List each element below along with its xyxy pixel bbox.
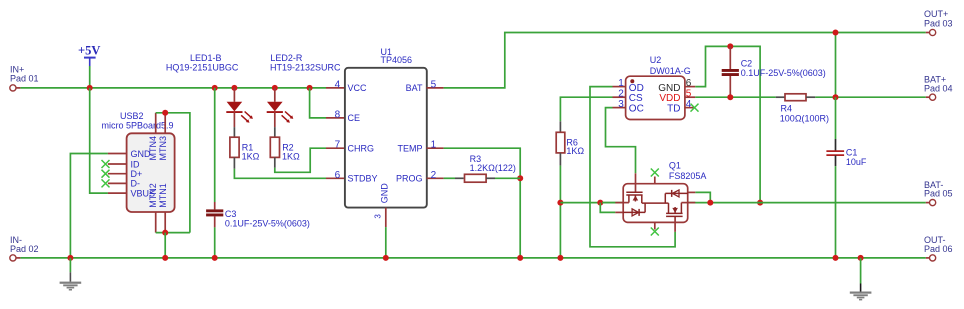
- wire R2 to CHRG: [275, 148, 326, 172]
- pin 1 TEMP: [427, 147, 444, 149]
- wire R4 to BAT+ pad: [815, 96, 926, 98]
- svg-text:TP4056: TP4056: [381, 55, 413, 65]
- wire C3 top: [214, 88, 216, 202]
- resistor R2 1K: [270, 127, 300, 168]
- junction BAT- rail at R6: [557, 200, 563, 206]
- pad OUT- Pad 06: [924, 235, 953, 261]
- svg-text:Pad 02: Pad 02: [10, 244, 39, 254]
- svg-text:Pad 04: Pad 04: [924, 83, 953, 93]
- wire BAT to OUT+ rail: [444, 33, 926, 88]
- pin 3 GND: [385, 208, 387, 228]
- capacitor C2: [722, 46, 826, 97]
- pin S1 upper-left: [615, 202, 629, 204]
- junction ground rail at C1: [833, 255, 839, 261]
- junction C2 top: [727, 43, 733, 49]
- svg-text:Pad 06: Pad 06: [924, 244, 953, 254]
- pin 4 TD: [685, 107, 694, 109]
- wire R1 to STDBY: [234, 169, 326, 179]
- svg-text:GND: GND: [379, 183, 389, 204]
- pin D+: [108, 173, 127, 175]
- svg-text:Pad 01: Pad 01: [10, 74, 39, 84]
- pin 6 STDBY: [326, 177, 344, 179]
- junction IN+ rail at C3: [212, 85, 218, 91]
- svg-text:1: 1: [431, 140, 437, 151]
- junction ground rail at R6: [557, 255, 563, 261]
- svg-text:MTN4: MTN4: [148, 136, 158, 161]
- no-connect X top: [651, 169, 659, 177]
- svg-text:5: 5: [686, 89, 692, 100]
- wire R3 to TEMP drop: [495, 177, 520, 179]
- svg-text:OD: OD: [629, 83, 644, 94]
- svg-text:USB2: USB2: [120, 111, 144, 121]
- resistor R1 1K: [230, 127, 260, 169]
- no-connect X on D-: [102, 179, 110, 187]
- wire OUT+ to BAT+ link: [835, 33, 837, 98]
- svg-text:Pad 03: Pad 03: [924, 18, 953, 28]
- junction ground rail at x=70: [67, 255, 73, 261]
- svg-text:VCC: VCC: [348, 83, 368, 93]
- IC U2 DW01A-G: [613, 55, 699, 120]
- svg-text:D-: D-: [131, 179, 141, 189]
- no-connect X on D+: [102, 170, 110, 178]
- pin 1 dot marker: [630, 79, 634, 83]
- svg-text:MTN1: MTN1: [158, 183, 168, 208]
- pad BAT- Pad 05: [924, 180, 953, 206]
- svg-text:MTN2: MTN2: [148, 183, 158, 208]
- junction BAT- rail at U2 GND: [757, 200, 763, 206]
- pin 6 GND: [685, 86, 695, 88]
- pin 5 VDD: [685, 96, 695, 98]
- svg-text:4: 4: [335, 79, 341, 90]
- svg-text:CS: CS: [629, 93, 643, 104]
- svg-text:VDD: VDD: [659, 93, 680, 104]
- pin D upper-right: [688, 191, 695, 193]
- junction ground rail at right ground: [858, 255, 864, 261]
- wire OC net to Q1 gate1: [606, 108, 636, 174]
- svg-text:Pad 05: Pad 05: [924, 189, 953, 199]
- svg-text:GND: GND: [658, 83, 680, 94]
- pin MTN2: [155, 212, 157, 233]
- svg-text:R4: R4: [781, 104, 793, 114]
- pin G1 top: [635, 173, 637, 192]
- wire OD net to Q1 gate2: [590, 87, 675, 247]
- body diode D2 upper-right: [665, 190, 688, 203]
- svg-text:8: 8: [335, 109, 341, 120]
- svg-text:Q1: Q1: [669, 161, 681, 171]
- svg-text:BAT: BAT: [406, 83, 423, 93]
- svg-text:DW01A-G: DW01A-G: [650, 66, 691, 76]
- svg-text:100Ω(100R): 100Ω(100R): [780, 114, 829, 124]
- no-connect X on ID: [102, 160, 110, 168]
- svg-text:1.2KΩ(122): 1.2KΩ(122): [470, 163, 516, 173]
- svg-text:CE: CE: [348, 113, 361, 123]
- LED LED1-B HQ19-2151UBGC: [166, 53, 253, 127]
- junction MTN bottom: [162, 230, 168, 236]
- wire C1 column: [835, 97, 837, 139]
- junction ground rail at C3: [212, 255, 218, 261]
- junction BAT- rail at Q1 left: [597, 200, 603, 206]
- pin 4 VCC: [326, 87, 344, 89]
- pin 2 PROG: [427, 177, 444, 179]
- wire MTN to ground rail: [164, 233, 166, 258]
- pin GND: [108, 153, 127, 155]
- svg-text:0.1UF-25V-5%(0603): 0.1UF-25V-5%(0603): [741, 68, 826, 78]
- pad IN- Pad 02: [10, 235, 39, 261]
- svg-text:HT19-2132SURC: HT19-2132SURC: [270, 63, 341, 73]
- svg-text:1KΩ: 1KΩ: [566, 146, 584, 156]
- pin MTN4: [155, 113, 157, 134]
- wire U1 GND to ground rail: [385, 227, 387, 258]
- junction OUT+ rail at link: [833, 30, 839, 36]
- junction IN+ rail at LED2: [272, 85, 278, 91]
- svg-text:10uF: 10uF: [846, 157, 867, 167]
- resistor R4 100R: [776, 94, 829, 124]
- svg-text:MTN3: MTN3: [158, 136, 168, 161]
- wire VDD to R4: [695, 96, 775, 98]
- internal node wire: [642, 202, 669, 204]
- wire USB mounting bottom: [156, 232, 190, 234]
- svg-text:2: 2: [618, 89, 624, 100]
- pin D-: [108, 182, 127, 184]
- svg-text:1: 1: [618, 78, 624, 89]
- wire IN+ rail: [20, 87, 326, 89]
- svg-text:D+: D+: [131, 169, 143, 179]
- pin S2 lower-right: [681, 202, 695, 204]
- pin G2 bottom: [674, 216, 676, 231]
- svg-text:PROG: PROG: [396, 174, 423, 184]
- power +5V: [78, 44, 100, 88]
- ground symbol left: [60, 258, 82, 291]
- LED LED2-R HT19-2132SURC: [267, 53, 341, 127]
- pin 7 CHRG: [326, 147, 344, 149]
- pin 2 CS: [613, 96, 626, 98]
- junction +5V/VBUS on IN+ rail: [87, 85, 93, 91]
- junction MTN top: [162, 110, 168, 116]
- junction R3 to TEMP drop: [517, 175, 523, 181]
- pin ID: [108, 163, 127, 165]
- no-connect X bottom: [651, 228, 659, 236]
- junction ground rail at U1 GND: [383, 255, 389, 261]
- svg-text:6: 6: [335, 170, 341, 181]
- mosfet M1 upper-left: [626, 192, 642, 203]
- junction BAT+ rail at link: [833, 94, 839, 100]
- resistor R3 1.2K(122): [455, 154, 516, 182]
- svg-text:CHRG: CHRG: [348, 144, 375, 154]
- mosfet M2 lower-right: [666, 203, 683, 217]
- wire C1 to ground rail: [835, 166, 837, 258]
- svg-text:ID: ID: [131, 159, 141, 169]
- svg-text:FS8205A: FS8205A: [669, 171, 707, 181]
- pin NC top: [654, 177, 656, 184]
- junction IN+ rail at LED1: [231, 85, 237, 91]
- svg-text:5: 5: [431, 79, 437, 90]
- pin 3 OC: [613, 107, 626, 109]
- pin NC bottom: [654, 222, 656, 229]
- pin 8 CE: [326, 117, 344, 119]
- body diode D1 lower-left: [623, 203, 645, 216]
- svg-text:STDBY: STDBY: [348, 174, 378, 184]
- wire PROG to R3: [444, 177, 455, 179]
- svg-text:LED1-B: LED1-B: [190, 53, 222, 63]
- capacitor C1 10uF: [826, 139, 867, 167]
- svg-text:HQ19-2151UBGC: HQ19-2151UBGC: [166, 63, 239, 73]
- svg-text:3: 3: [374, 214, 383, 219]
- wire BAT- rail: [560, 202, 925, 204]
- svg-text:2: 2: [431, 170, 437, 181]
- wire Q1 upper-right pin: [695, 192, 710, 202]
- pin MTN1: [164, 212, 166, 233]
- svg-text:0.1UF-25V-5%(0603): 0.1UF-25V-5%(0603): [225, 218, 310, 228]
- pin VBUS: [108, 192, 127, 194]
- svg-text:micro 5PBoard5.9: micro 5PBoard5.9: [102, 121, 174, 131]
- connector USB2 micro 5PBoard5.9: [102, 111, 175, 233]
- pin 1 OD: [613, 86, 626, 88]
- wire VBUS drop: [90, 88, 108, 193]
- resistor R6 1K: [556, 121, 584, 165]
- junction BAT- rail at Q1 right: [707, 200, 713, 206]
- wire USB GND to ground rail: [70, 154, 108, 258]
- pin G1b lower-left: [615, 211, 623, 213]
- transistor Q1 FS8205A: [615, 161, 706, 236]
- pad BAT+ Pad 04: [924, 74, 953, 100]
- wire Q1 left upper entry: [602, 202, 615, 204]
- svg-text:OC: OC: [629, 104, 644, 115]
- wire Q1 lower-left pin step: [600, 203, 615, 213]
- svg-text:TEMP: TEMP: [397, 144, 422, 154]
- svg-text:+5V: +5V: [78, 44, 100, 58]
- svg-text:1KΩ: 1KΩ: [282, 151, 300, 161]
- IC U1 TP4056: [326, 47, 444, 227]
- pin 5 BAT: [427, 87, 444, 89]
- svg-text:1KΩ: 1KΩ: [242, 151, 260, 161]
- wire ground rail IN- to OUT-: [20, 257, 925, 259]
- junction IN+ rail at CE drop: [307, 85, 313, 91]
- wire U2 GND net over C2: [695, 46, 760, 202]
- svg-text:LED2-R: LED2-R: [270, 53, 303, 63]
- svg-text:C2: C2: [741, 58, 753, 68]
- junction ground rail at x=165: [162, 255, 168, 261]
- wire C3 bottom: [214, 227, 216, 258]
- wire USB mounting top loop: [156, 113, 190, 233]
- no-connect X on TD: [691, 104, 699, 112]
- svg-text:6: 6: [686, 78, 692, 89]
- pad IN+ Pad 01: [10, 65, 39, 92]
- ground symbol right: [850, 258, 872, 301]
- wire R6 to rails: [559, 166, 561, 258]
- wire TEMP to ground drop: [444, 148, 521, 258]
- junction C2 bottom on VDD: [727, 94, 733, 100]
- svg-text:U2: U2: [650, 55, 662, 65]
- svg-text:7: 7: [335, 140, 341, 151]
- pad OUT+ Pad 03: [924, 9, 953, 36]
- junction ground rail at TEMP drop: [517, 255, 523, 261]
- capacitor C3: [206, 202, 310, 228]
- wire CS to R6: [560, 97, 612, 121]
- svg-text:TD: TD: [667, 104, 680, 115]
- svg-text:3: 3: [618, 99, 624, 110]
- wire CE drop: [310, 88, 326, 118]
- pin MTN3: [164, 113, 166, 134]
